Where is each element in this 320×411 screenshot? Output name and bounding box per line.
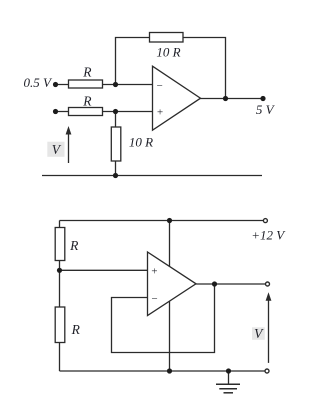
svg-text:+12 V: +12 V xyxy=(251,228,286,243)
svg-text:+: + xyxy=(151,266,158,278)
svg-text:R: R xyxy=(82,65,92,80)
svg-text:0.5 V: 0.5 V xyxy=(24,75,54,90)
svg-text:+: + xyxy=(156,107,163,119)
svg-text:−: − xyxy=(156,80,163,92)
svg-text:10 R: 10 R xyxy=(129,135,153,150)
svg-text:R: R xyxy=(69,238,79,253)
svg-text:−: − xyxy=(151,293,158,305)
svg-text:10 R: 10 R xyxy=(156,45,180,60)
svg-text:R: R xyxy=(71,322,81,337)
svg-text:5 V: 5 V xyxy=(256,102,276,117)
svg-text:R: R xyxy=(82,94,92,109)
